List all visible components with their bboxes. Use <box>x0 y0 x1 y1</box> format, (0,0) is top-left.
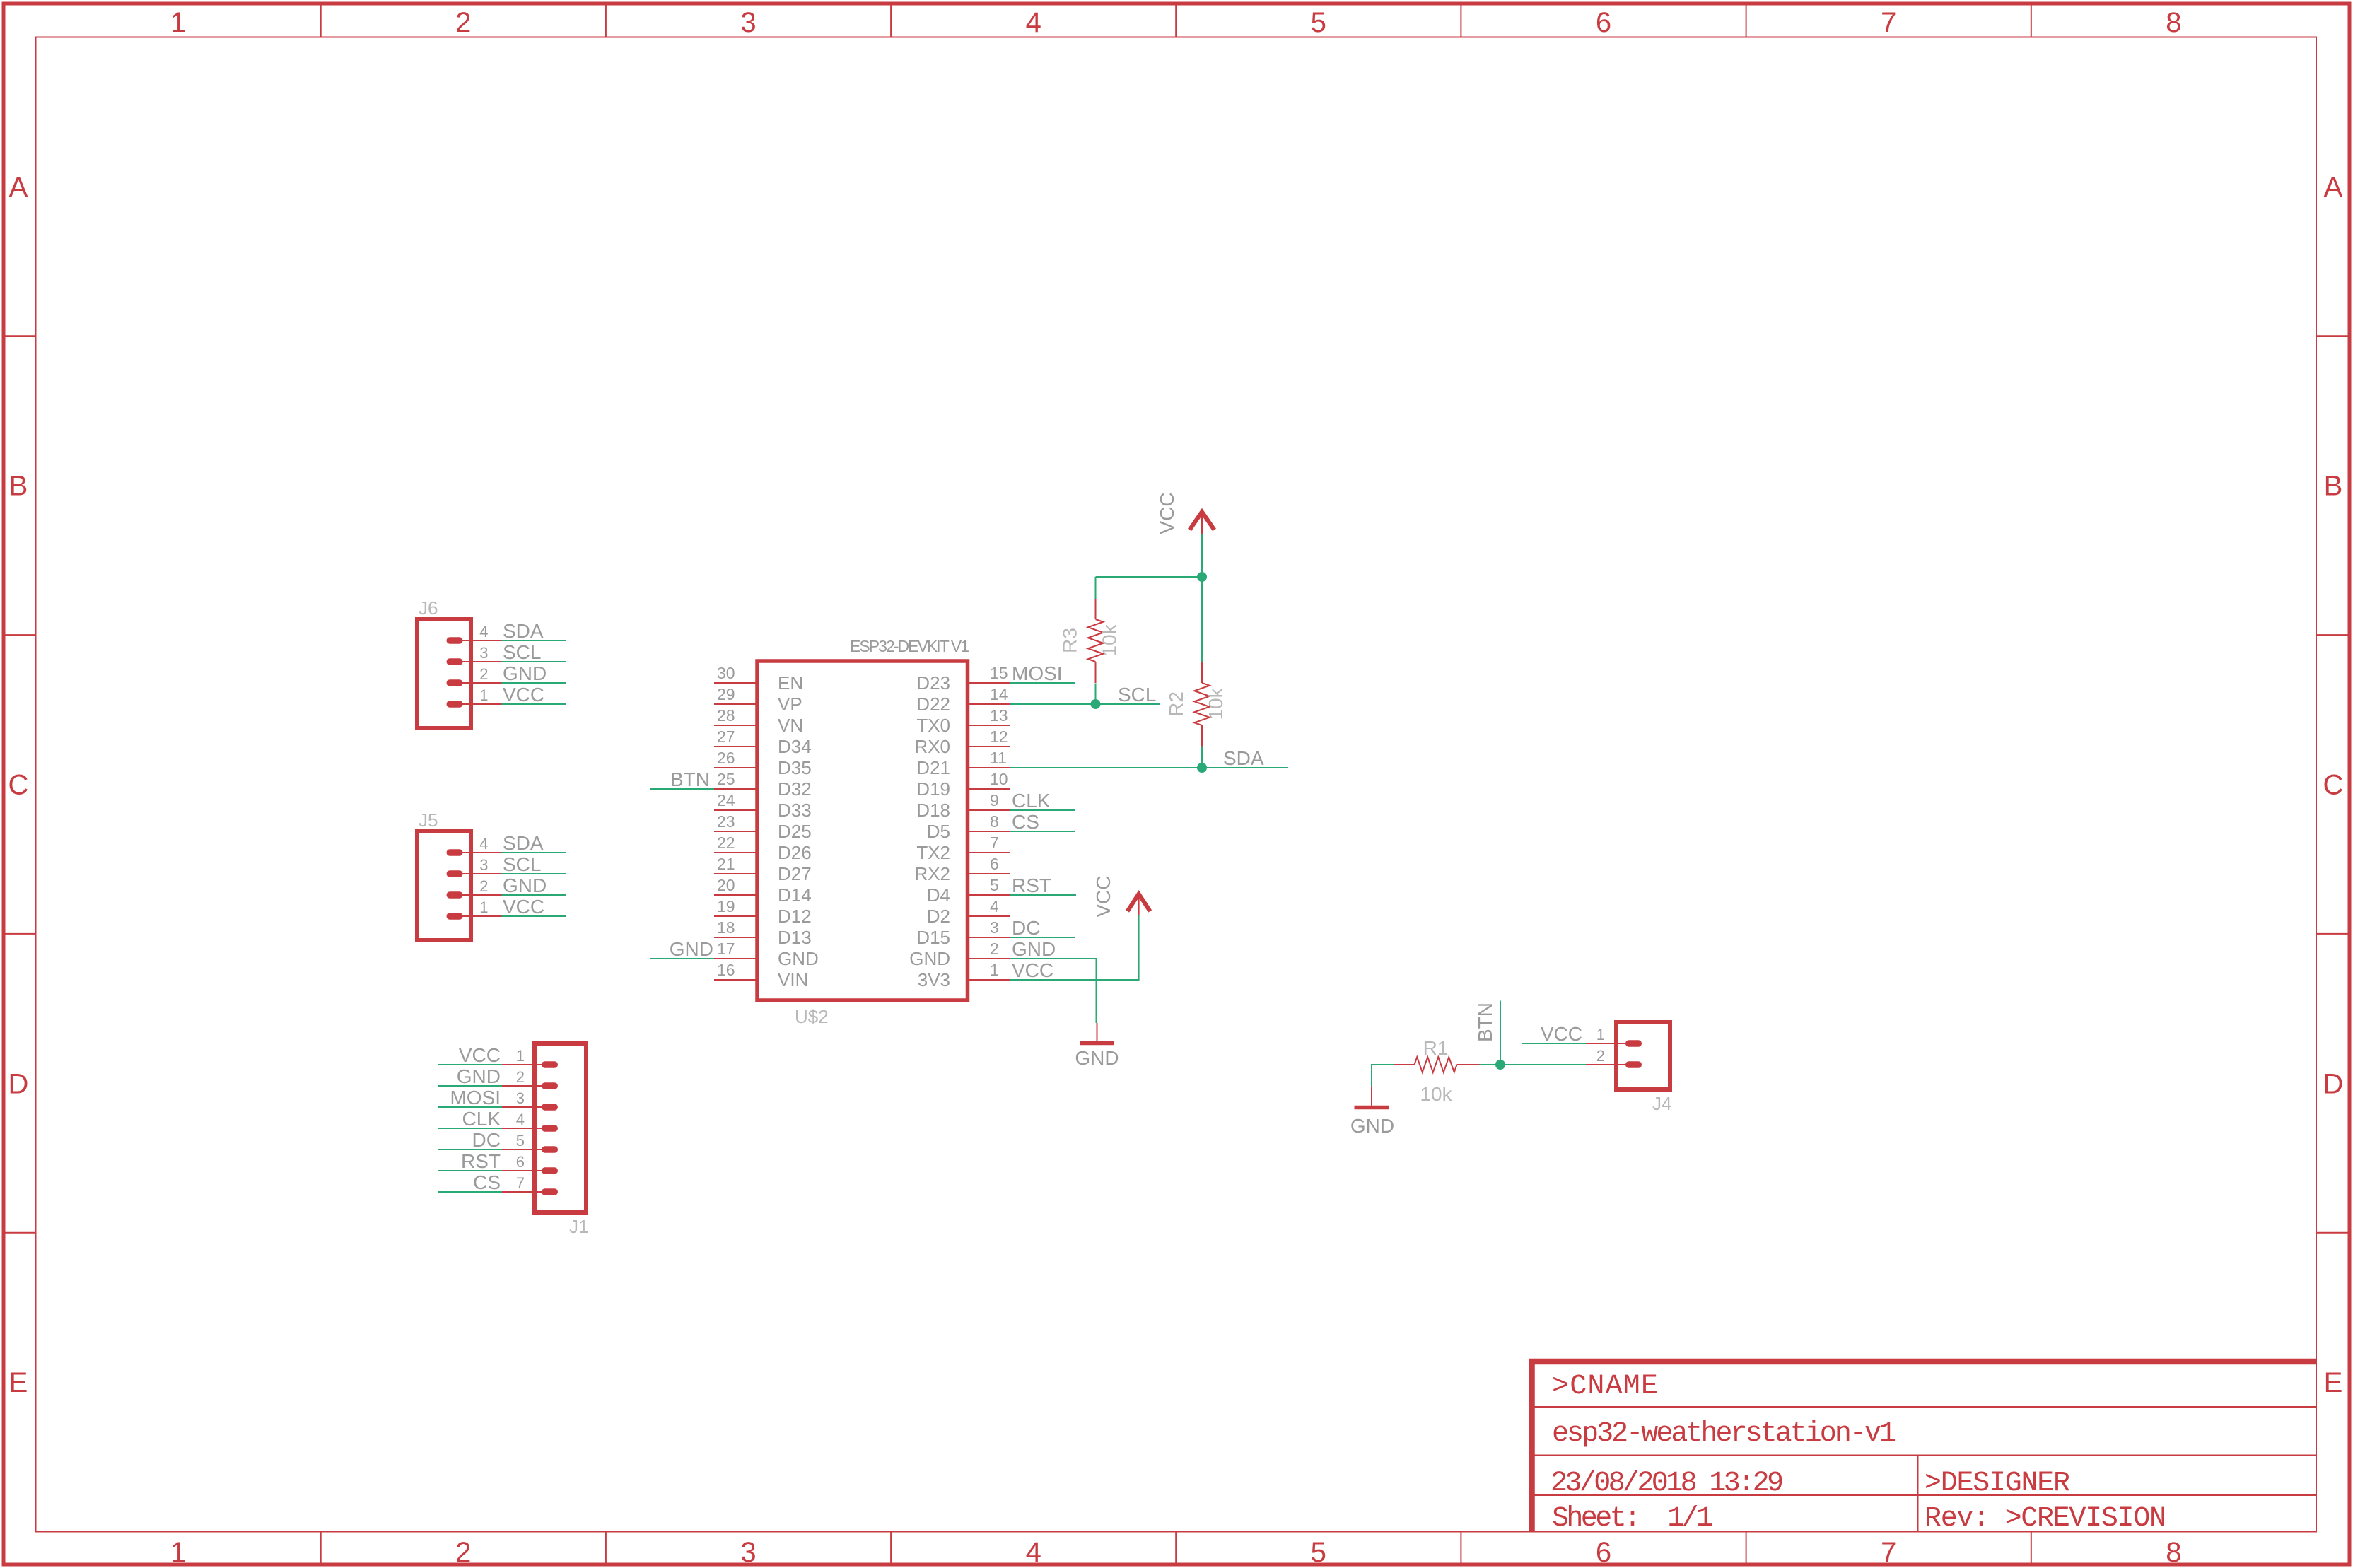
svg-text:D26: D26 <box>778 842 812 863</box>
svg-text:E: E <box>2324 1367 2343 1398</box>
svg-text:7: 7 <box>516 1174 525 1192</box>
svg-text:D13: D13 <box>778 927 812 948</box>
svg-text:10k: 10k <box>1205 687 1227 720</box>
wire BTN net to J4 pin 2 <box>1500 1064 1586 1065</box>
U$2 pin 15 D23 <box>916 664 1010 694</box>
svg-text:GND: GND <box>1075 1047 1119 1069</box>
wire R3 top lead to VCC <box>1095 577 1097 599</box>
svg-text:D25: D25 <box>778 821 812 842</box>
resistor R2 (10k) <box>1194 662 1210 747</box>
svg-text:26: 26 <box>717 749 735 767</box>
resistor R3 (10k) <box>1088 599 1104 683</box>
svg-text:7: 7 <box>1881 1537 1896 1568</box>
svg-text:D: D <box>2323 1068 2344 1099</box>
svg-text:1: 1 <box>990 961 999 979</box>
svg-text:2: 2 <box>1596 1047 1605 1065</box>
svg-text:RX0: RX0 <box>914 736 950 757</box>
svg-text:SCL: SCL <box>503 641 541 663</box>
J1 pin 7 <box>502 1174 558 1195</box>
wire VCC horizontal (junction to R3) <box>1096 576 1203 578</box>
U$2 pin 24 D33 <box>714 791 812 821</box>
svg-text:4: 4 <box>990 897 999 915</box>
svg-text:9: 9 <box>990 791 999 809</box>
J1 pin 3 <box>502 1089 558 1111</box>
J6 pin 3 <box>447 644 502 665</box>
svg-text:2: 2 <box>455 7 471 38</box>
U$2 pin 18 D13 <box>714 918 812 948</box>
svg-text:VCC: VCC <box>459 1044 501 1066</box>
svg-text:GND: GND <box>1350 1115 1394 1137</box>
svg-text:RX2: RX2 <box>914 863 950 884</box>
svg-text:8: 8 <box>990 812 999 831</box>
svg-text:15: 15 <box>990 664 1008 682</box>
svg-text:30: 30 <box>717 664 735 682</box>
wire R2 bottom lead to SDA <box>1201 747 1203 768</box>
svg-text:CLK: CLK <box>462 1108 501 1130</box>
svg-text:GND: GND <box>909 948 950 969</box>
wire BTN (U$2 pin 25) <box>650 788 714 790</box>
wire BTN (R1 right to junction) <box>1480 1064 1501 1065</box>
svg-text:10k: 10k <box>1099 624 1121 656</box>
svg-text:GND: GND <box>457 1065 501 1087</box>
wire SDA (J5 pin 4) <box>502 852 567 853</box>
wire SDA (U$2 pin 11) <box>1010 767 1288 768</box>
connector J1 body <box>535 1043 586 1212</box>
J4 pin 2 <box>1586 1047 1642 1068</box>
svg-text:RST: RST <box>461 1150 501 1172</box>
J6 pin 1 <box>447 686 502 708</box>
svg-text:D: D <box>8 1068 29 1099</box>
wire CLK (J1 pin 4) <box>438 1128 502 1129</box>
svg-text:2: 2 <box>479 877 488 895</box>
wire DC (J1 pin 5) <box>438 1149 502 1150</box>
wire GND (J5 pin 2) <box>502 894 567 896</box>
svg-text:2: 2 <box>516 1068 525 1086</box>
svg-text:10: 10 <box>990 770 1008 788</box>
svg-text:CLK: CLK <box>1012 790 1051 812</box>
J1 pin 1 <box>502 1047 558 1068</box>
op-amp U$2 ESP32-DEVKIT V1 IC body <box>757 661 968 1000</box>
svg-text:U$2: U$2 <box>795 1006 829 1027</box>
ground symbol (left of R1) <box>1355 1087 1390 1108</box>
svg-text:VCC: VCC <box>1012 959 1053 981</box>
svg-text:SCL: SCL <box>503 853 541 875</box>
svg-text:BTN: BTN <box>1474 1002 1496 1042</box>
wire RST (J1 pin 6) <box>438 1170 502 1171</box>
J6 pin 2 <box>447 665 502 686</box>
svg-text:4: 4 <box>479 835 488 853</box>
svg-text:C: C <box>8 770 29 801</box>
svg-text:DC: DC <box>1012 917 1040 939</box>
junction SCL / R3 <box>1091 699 1101 709</box>
svg-text:6: 6 <box>516 1153 525 1171</box>
J1 pin 6 <box>502 1153 558 1174</box>
svg-text:SDA: SDA <box>503 620 544 642</box>
svg-text:5: 5 <box>990 876 999 894</box>
wire MOSI (J1 pin 3) <box>438 1106 502 1108</box>
svg-text:3: 3 <box>479 856 488 874</box>
svg-text:CS: CS <box>473 1171 501 1193</box>
svg-text:R3: R3 <box>1059 628 1081 653</box>
svg-text:3V3: 3V3 <box>918 969 950 990</box>
svg-text:J6: J6 <box>419 597 438 619</box>
svg-text:7: 7 <box>1881 7 1896 38</box>
svg-text:D12: D12 <box>778 906 812 927</box>
svg-text:VCC: VCC <box>1541 1023 1582 1045</box>
svg-text:D27: D27 <box>778 863 812 884</box>
svg-text:VCC: VCC <box>503 684 544 706</box>
U$2 pin 19 D12 <box>714 897 812 927</box>
svg-text:D4: D4 <box>927 884 950 906</box>
wire CLK (U$2 pin 9) <box>1010 809 1075 811</box>
svg-text:esp32-weatherstation-v1: esp32-weatherstation-v1 <box>1552 1418 1896 1450</box>
svg-text:2: 2 <box>455 1537 471 1568</box>
svg-text:>CNAME: >CNAME <box>1552 1371 1658 1403</box>
U$2 pin 9 D18 <box>916 791 1010 821</box>
J1 pin 4 <box>502 1111 558 1132</box>
svg-text:8: 8 <box>2166 1537 2181 1568</box>
U$2 pin 13 TX0 <box>916 706 1010 736</box>
svg-text:B: B <box>2324 471 2343 502</box>
svg-text:28: 28 <box>717 706 735 725</box>
svg-text:2: 2 <box>990 940 999 958</box>
wire GND (R1 left to ground) <box>1372 1065 1394 1087</box>
svg-text:23: 23 <box>717 812 735 831</box>
wire GND (J1 pin 2) <box>438 1085 502 1087</box>
J1 pin 2 <box>502 1068 558 1089</box>
svg-text:18: 18 <box>717 918 735 937</box>
svg-text:22: 22 <box>717 833 735 852</box>
svg-text:3: 3 <box>990 918 999 937</box>
svg-text:ESP32-DEVKIT V1: ESP32-DEVKIT V1 <box>850 637 969 655</box>
wire VCC vertical (VCC symbol to junction to R2) <box>1201 534 1203 662</box>
J5 pin 1 <box>447 899 502 920</box>
wire BTN stub (vertical) <box>1500 1001 1501 1065</box>
svg-text:J5: J5 <box>419 809 438 831</box>
U$2 pin 6 RX2 <box>914 855 1010 884</box>
U$2 pin 4 D2 <box>927 897 1010 927</box>
wire RST (U$2 pin 5) <box>1010 894 1076 896</box>
svg-text:EN: EN <box>778 672 803 694</box>
svg-text:Rev: >CREVISION: Rev: >CREVISION <box>1925 1503 2166 1535</box>
U$2 pin 22 D26 <box>714 833 812 863</box>
svg-text:19: 19 <box>717 897 735 915</box>
VCC power symbol (near U$2 pin 1) <box>1128 894 1150 916</box>
wire GND (J6 pin 2) <box>502 682 567 684</box>
U$2 pin 25 D32 <box>714 770 812 800</box>
svg-text:23/08/2018 13:29: 23/08/2018 13:29 <box>1551 1468 1784 1499</box>
svg-text:CS: CS <box>1012 811 1039 833</box>
svg-text:E: E <box>9 1367 28 1398</box>
U$2 pin 7 TX2 <box>916 833 1010 863</box>
U$2 pin 14 D22 <box>916 685 1010 715</box>
svg-text:>DESIGNER: >DESIGNER <box>1925 1468 2070 1499</box>
svg-text:6: 6 <box>990 855 999 873</box>
wire SDA (J6 pin 4) <box>502 640 567 641</box>
U$2 pin 27 D34 <box>714 727 812 757</box>
J5 pin 3 <box>447 856 502 877</box>
svg-text:D15: D15 <box>916 927 950 948</box>
U$2 pin 16 VIN <box>714 961 808 990</box>
svg-text:VN: VN <box>778 715 803 736</box>
svg-text:25: 25 <box>717 770 735 788</box>
J4 pin 1 <box>1586 1026 1642 1047</box>
wire MOSI (U$2 pin 15) <box>1010 682 1075 684</box>
svg-text:D34: D34 <box>778 736 812 757</box>
svg-text:A: A <box>9 172 28 203</box>
svg-text:BTN: BTN <box>670 768 710 790</box>
U$2 pin 20 D14 <box>714 876 812 906</box>
svg-text:1: 1 <box>170 1537 186 1568</box>
svg-text:4: 4 <box>479 623 488 640</box>
U$2 pin 28 VN <box>714 706 803 736</box>
svg-text:J4: J4 <box>1652 1093 1671 1114</box>
J6 pin 4 <box>447 623 502 644</box>
svg-text:27: 27 <box>717 727 735 746</box>
svg-text:4: 4 <box>516 1111 525 1128</box>
svg-text:C: C <box>2323 770 2344 801</box>
svg-text:D32: D32 <box>778 778 812 800</box>
svg-text:D22: D22 <box>916 694 950 715</box>
svg-text:20: 20 <box>717 876 735 894</box>
svg-text:GND: GND <box>503 662 547 684</box>
wire R3 bottom lead to SCL <box>1095 684 1097 705</box>
svg-text:1: 1 <box>1596 1026 1605 1043</box>
svg-text:VIN: VIN <box>778 969 808 990</box>
svg-text:TX2: TX2 <box>916 842 950 863</box>
svg-text:MOSI: MOSI <box>1012 662 1063 684</box>
svg-text:21: 21 <box>717 855 735 873</box>
wire VCC (J6 pin 1) <box>502 703 567 705</box>
J5 pin 2 <box>447 877 502 899</box>
svg-text:2: 2 <box>479 665 488 683</box>
svg-text:D21: D21 <box>916 757 950 778</box>
svg-text:GND: GND <box>503 874 547 896</box>
J5 pin 4 <box>447 835 502 856</box>
wire VCC (J5 pin 1) <box>502 915 567 917</box>
svg-text:8: 8 <box>2166 7 2181 38</box>
U$2 pin 10 D19 <box>916 770 1010 800</box>
svg-text:D35: D35 <box>778 757 812 778</box>
connector J4 body <box>1616 1022 1670 1089</box>
junction VCC / R2 / R3 <box>1197 572 1207 582</box>
U$2 pin 30 EN <box>714 664 803 694</box>
svg-text:4: 4 <box>1026 1537 1041 1568</box>
svg-text:DC: DC <box>472 1129 501 1151</box>
svg-text:5: 5 <box>1311 1537 1326 1568</box>
svg-text:B: B <box>9 471 28 502</box>
svg-text:3: 3 <box>479 644 488 662</box>
svg-text:D2: D2 <box>927 906 950 927</box>
ground symbol (below U$2) <box>1080 1023 1114 1043</box>
U$2 pin 1 3V3 <box>918 961 1010 990</box>
svg-text:GND: GND <box>1012 938 1056 960</box>
wire CS (U$2 pin 8) <box>1010 831 1075 832</box>
svg-text:7: 7 <box>990 833 999 852</box>
svg-text:D33: D33 <box>778 800 812 821</box>
svg-text:16: 16 <box>717 961 735 979</box>
svg-text:D19: D19 <box>916 778 950 800</box>
svg-text:6: 6 <box>1596 7 1611 38</box>
U$2 pin 21 D27 <box>714 855 812 884</box>
wire GND (U$2 pin 17) <box>650 958 714 959</box>
svg-text:3: 3 <box>740 1537 756 1568</box>
svg-text:D5: D5 <box>927 821 950 842</box>
junction BTN / R1 / J4 <box>1495 1060 1505 1070</box>
svg-text:D23: D23 <box>916 672 950 694</box>
wire SCL (U$2 pin 14) <box>1010 703 1160 705</box>
svg-text:6: 6 <box>1596 1537 1611 1568</box>
U$2 pin 12 RX0 <box>914 727 1010 757</box>
connector J6 body <box>417 619 471 728</box>
wire SCL (J5 pin 3) <box>502 873 567 874</box>
svg-text:SDA: SDA <box>503 832 544 854</box>
wire VCC (J1 pin 1) <box>438 1064 502 1065</box>
svg-text:14: 14 <box>990 685 1008 703</box>
svg-text:R2: R2 <box>1165 691 1187 717</box>
svg-text:R1: R1 <box>1423 1037 1449 1059</box>
wire DC (U$2 pin 3) <box>1010 937 1075 938</box>
svg-text:29: 29 <box>717 685 735 703</box>
U$2 pin 3 D15 <box>916 918 1010 948</box>
svg-text:3: 3 <box>740 7 756 38</box>
svg-text:1: 1 <box>479 899 488 916</box>
wire SCL (J6 pin 3) <box>502 661 567 662</box>
svg-text:10k: 10k <box>1420 1083 1452 1105</box>
svg-text:3: 3 <box>516 1089 525 1107</box>
svg-text:VCC: VCC <box>1092 875 1114 917</box>
svg-text:GND: GND <box>778 948 819 969</box>
U$2 pin 26 D35 <box>714 749 812 778</box>
J1 pin 5 <box>502 1132 558 1153</box>
U$2 pin 11 D21 <box>916 749 1010 778</box>
connector J5 body <box>417 831 471 940</box>
svg-text:SDA: SDA <box>1223 747 1264 769</box>
svg-text:5: 5 <box>516 1132 525 1149</box>
svg-text:RST: RST <box>1012 874 1051 896</box>
svg-text:VP: VP <box>778 694 802 715</box>
U$2 pin 23 D25 <box>714 812 812 842</box>
U$2 pin 29 VP <box>714 685 802 715</box>
U$2 pin 2 GND <box>909 940 1010 969</box>
svg-text:1: 1 <box>170 7 186 38</box>
svg-text:17: 17 <box>717 940 735 958</box>
svg-text:13: 13 <box>990 706 1008 725</box>
VCC power symbol (top, above R2/R3) <box>1190 512 1215 534</box>
svg-text:A: A <box>2324 172 2343 203</box>
svg-text:5: 5 <box>1311 7 1326 38</box>
wire GND (U$2 pin 2 to ground) <box>1010 959 1097 1023</box>
svg-text:Sheet: 1/1: Sheet: 1/1 <box>1552 1503 1713 1535</box>
resistor R1 (10k) <box>1394 1057 1480 1072</box>
svg-text:J1: J1 <box>569 1216 588 1237</box>
svg-text:1: 1 <box>516 1047 525 1065</box>
wire VCC (J4 pin 1) <box>1522 1043 1586 1044</box>
svg-text:4: 4 <box>1026 7 1041 38</box>
svg-text:VCC: VCC <box>503 896 544 918</box>
svg-text:1: 1 <box>479 686 488 704</box>
svg-text:11: 11 <box>990 749 1007 767</box>
svg-text:D18: D18 <box>916 800 950 821</box>
junction SDA / R2 <box>1197 763 1207 773</box>
U$2 pin 17 GND <box>714 940 819 969</box>
svg-text:24: 24 <box>717 791 735 809</box>
svg-text:12: 12 <box>990 727 1008 746</box>
svg-text:TX0: TX0 <box>916 715 950 736</box>
svg-text:GND: GND <box>670 938 713 960</box>
svg-text:MOSI: MOSI <box>450 1087 501 1108</box>
wire VCC (U$2 pin 1 to VCC symbol) <box>1010 915 1139 980</box>
U$2 pin 8 D5 <box>927 812 1010 842</box>
U$2 pin 5 D4 <box>927 876 1010 906</box>
svg-text:SCL: SCL <box>1118 684 1156 706</box>
svg-text:VCC: VCC <box>1156 492 1178 534</box>
wire CS (J1 pin 7) <box>438 1191 502 1193</box>
svg-text:D14: D14 <box>778 884 812 906</box>
